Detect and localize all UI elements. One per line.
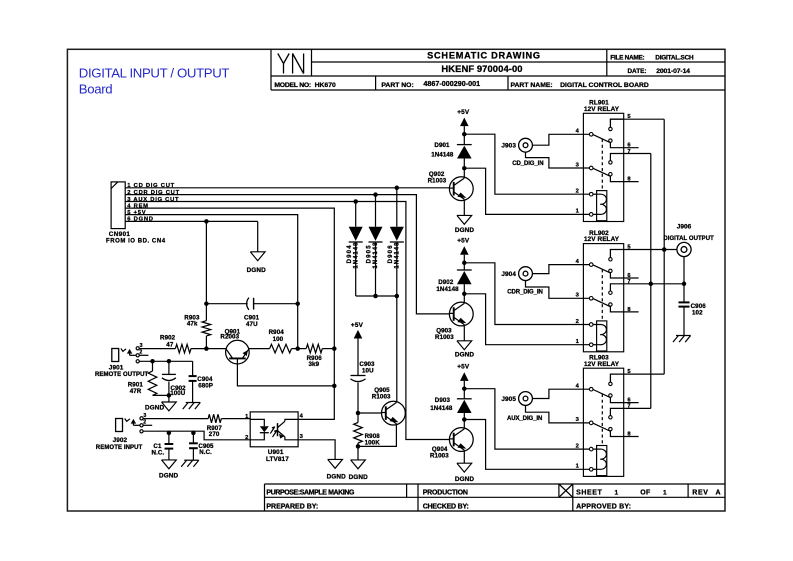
ground DGND of branch 2 — [457, 341, 472, 350]
junction C902 bottom — [167, 393, 172, 398]
ground DGND of J901 network — [162, 402, 177, 411]
svg-text:1N4148: 1N4148 — [353, 242, 359, 269]
svg-text:1N4148: 1N4148 — [373, 242, 379, 269]
junction D905 join — [373, 294, 378, 299]
svg-text:1: 1 — [663, 490, 667, 497]
junction C906 node — [682, 282, 687, 287]
svg-text:1N4148: 1N4148 — [430, 405, 453, 412]
wire collector node to relay coil pin1 — [464, 294, 589, 345]
capacitor C904 680P — [192, 361, 194, 376]
svg-text:DGND: DGND — [247, 267, 267, 274]
svg-text:D903: D903 — [435, 397, 451, 404]
wire Q901 collector down and right to REM node — [237, 364, 334, 386]
resistor R904 100 — [270, 344, 292, 353]
svg-text:DGND: DGND — [455, 227, 475, 234]
transistor Q905 R1003 — [382, 401, 406, 425]
junction bus/J906 line — [662, 247, 667, 252]
wire J901 tip to R902 — [139, 348, 175, 350]
junction base/R903 — [204, 346, 209, 351]
connector J901 REMOTE OUTPUT — [112, 343, 149, 363]
svg-text:SCHEMATIC DRAWING: SCHEMATIC DRAWING — [427, 50, 541, 60]
U901 phototransistor — [277, 423, 279, 436]
svg-text:J903: J903 — [501, 142, 516, 149]
svg-text:12V RELAY: 12V RELAY — [584, 361, 620, 368]
junction sleeve/R901 — [150, 359, 155, 364]
svg-text:REV: REV — [692, 489, 708, 496]
wire C906 node down — [683, 284, 685, 303]
svg-text:OF: OF — [640, 489, 651, 496]
chassis ground of C904 — [186, 402, 201, 404]
wire J902 sleeve to U901 pin2 — [143, 431, 250, 440]
svg-text:PURPOSE:SAMPLE MAKING: PURPOSE:SAMPLE MAKING — [266, 489, 355, 496]
diode D902 1N4148 — [463, 263, 465, 270]
wire C901 right segment to +5V drop — [254, 303, 298, 305]
wire R903 branch vertical — [205, 221, 207, 320]
transistor Q901 R2003 — [226, 340, 250, 364]
svg-text:DIGITAL.SCH: DIGITAL.SCH — [655, 55, 694, 62]
junction sleeve/C1 — [167, 431, 172, 436]
diode D904 1N4148 — [355, 202, 357, 227]
svg-text:FROM IO BD. CN4: FROM IO BD. CN4 — [106, 239, 166, 245]
title block grid — [270, 49, 272, 90]
wire R903 to base node — [205, 336, 207, 349]
svg-text:2001-07-14: 2001-07-14 — [656, 68, 690, 75]
junction R908 bottom — [356, 444, 361, 449]
svg-text:47: 47 — [166, 341, 174, 348]
wire relay RL901 pin5 to output bus — [624, 118, 665, 120]
svg-text:D905: D905 — [367, 244, 373, 263]
svg-text:Board: Board — [79, 82, 112, 97]
svg-text:HKENF 970004-00: HKENF 970004-00 — [441, 63, 522, 74]
wire R901-C902 bottom join — [153, 394, 169, 396]
capacitor C1 N.C. — [168, 433, 170, 444]
diode D906 1N4148 — [396, 188, 398, 227]
svg-text:DIGITAL CONTROL BOARD: DIGITAL CONTROL BOARD — [560, 82, 649, 89]
U901 internal LED — [250, 419, 264, 426]
svg-text:100K: 100K — [365, 439, 381, 446]
capacitor C902 100U — [168, 361, 170, 374]
wire Q905 emitter to R908 bottom — [358, 425, 396, 446]
svg-text:DIGITAL OUTPUT: DIGITAL OUTPUT — [663, 236, 714, 242]
junction wire2 / D905 — [373, 192, 378, 197]
svg-text:DGND: DGND — [159, 472, 179, 479]
wire J901 sleeve to R901/C902/C904 — [139, 360, 192, 362]
wire join to Q905 collector — [396, 296, 398, 401]
logo YN — [278, 54, 284, 74]
capacitor C901 47U — [247, 298, 249, 310]
diode D903 1N4148 — [463, 389, 465, 399]
wire emitter to ground branch 3 — [463, 452, 465, 464]
svg-text:A: A — [716, 489, 721, 496]
connector CN901 — [111, 182, 125, 229]
connector J903 CD_DIG_IN — [519, 138, 533, 152]
relay RL902 12V RELAY — [576, 230, 639, 352]
capacitor C903 10U — [351, 375, 366, 377]
wire emitter to ground branch 2 — [463, 326, 465, 341]
junction C903/R908/base — [356, 411, 361, 416]
svg-text:REMOTE INPUT: REMOTE INPUT — [96, 445, 143, 451]
transistor Q904 R1003 — [463, 420, 465, 428]
svg-text:PART NAME:: PART NAME: — [511, 82, 553, 89]
svg-text:R1003: R1003 — [430, 453, 449, 460]
svg-text:1N4148: 1N4148 — [436, 286, 459, 293]
connector J905 AUX_DIG_IN — [519, 392, 533, 406]
svg-text:PRODUCTION: PRODUCTION — [423, 489, 468, 496]
diode D901 1N4148 — [463, 134, 465, 144]
svg-text:J906: J906 — [677, 224, 692, 231]
wire +5V from CN901 pin5 down to C901/R903 node — [125, 215, 298, 349]
ground DGND of R908 — [351, 460, 366, 469]
svg-text:102: 102 — [692, 310, 703, 317]
svg-text:R1003: R1003 — [372, 393, 391, 400]
wire J903 sleeve to relay pin3 — [526, 152, 590, 168]
resistor R907 270 — [208, 414, 221, 423]
svg-text:+5V: +5V — [351, 322, 364, 329]
wire relay RL901 pin7 to return bus — [624, 153, 651, 155]
wire relay RL903 pin5 to output bus — [624, 373, 665, 375]
svg-text:R2003: R2003 — [220, 333, 239, 340]
svg-text:DGND: DGND — [455, 352, 475, 359]
svg-text:100: 100 — [273, 336, 284, 343]
svg-text:3k9: 3k9 — [309, 361, 320, 368]
svg-text:DGND: DGND — [327, 474, 347, 481]
resistor R902 47 — [175, 344, 191, 353]
svg-text:CDR_DIG_IN: CDR_DIG_IN — [507, 290, 543, 296]
junction D906 join — [395, 294, 400, 299]
svg-text:J904: J904 — [501, 271, 516, 278]
wire CDR_DIG_CUT from CN901 pin2 to Q903 base — [125, 195, 449, 314]
resistor R906 3k9 — [306, 344, 322, 353]
svg-text:APPROVED BY:: APPROVED BY: — [576, 503, 631, 510]
wire J905 sleeve to relay pin3 — [526, 405, 590, 423]
wire Q901 emitter to R904 — [249, 348, 270, 350]
op-amp U901 LTV817 optocoupler — [250, 412, 298, 447]
wire +5V to relay coil pin2 — [464, 263, 589, 325]
wire U901 pin3 to ground — [298, 440, 335, 460]
svg-text:+5V: +5V — [457, 238, 470, 245]
connector J902 REMOTE INPUT — [116, 413, 153, 433]
wire base of Q905 — [358, 412, 382, 414]
capacitor C905 N.C. — [192, 433, 194, 443]
svg-text:PART NO:: PART NO: — [381, 82, 413, 89]
wire +5V to relay coil pin2 — [464, 134, 589, 194]
junction REM/collector — [332, 384, 337, 389]
svg-text:D901: D901 — [434, 142, 450, 149]
chassis ground of C906 — [676, 335, 691, 337]
svg-text:J901: J901 — [109, 365, 124, 372]
svg-text:12V RELAY: 12V RELAY — [584, 106, 620, 113]
wire emitter to ground branch 1 — [463, 201, 465, 216]
svg-text:4867-000290-001: 4867-000290-001 — [423, 79, 480, 88]
connector J906 DIGITAL OUTPUT — [677, 242, 691, 256]
junction sleeve/C905 — [191, 431, 196, 436]
svg-text:SHEET: SHEET — [576, 489, 602, 496]
svg-text:MODEL NO:: MODEL NO: — [274, 82, 311, 89]
svg-text:DGND: DGND — [349, 474, 369, 481]
svg-text:J905: J905 — [501, 396, 516, 403]
svg-text:47R: 47R — [130, 388, 142, 395]
svg-text:N.C.: N.C. — [199, 449, 212, 456]
svg-text:AUX_DIG_IN: AUX_DIG_IN — [507, 416, 542, 422]
svg-text:1: 1 — [615, 490, 619, 497]
svg-text:R1003: R1003 — [435, 334, 454, 341]
svg-text:D902: D902 — [438, 279, 454, 286]
wire collector node to relay coil pin1 — [464, 168, 589, 214]
junction +5V drop / C901 — [295, 301, 300, 306]
svg-text:2: 2 — [245, 435, 248, 441]
junction wire1 / D906 — [395, 186, 400, 191]
U901 light arrows — [270, 427, 274, 434]
svg-text:J902: J902 — [113, 437, 128, 444]
svg-text:REMOTE OUTPUT: REMOTE OUTPUT — [95, 372, 149, 378]
junction diode/collector node branch 2 — [462, 292, 467, 297]
svg-text:+5V: +5V — [457, 363, 470, 370]
relay RL903 12V RELAY — [576, 355, 639, 477]
wire R906 to REM vertical — [322, 348, 334, 350]
wire R907 to U901 pin1 — [221, 418, 250, 420]
wire +5V to relay coil pin2 — [464, 389, 589, 449]
svg-text:47U: 47U — [246, 321, 258, 328]
diode D905 1N4148 — [375, 195, 377, 227]
junction +5V/R904/R906 — [295, 346, 300, 351]
wire diode cathode join — [356, 295, 397, 297]
wire AUX_DIG_CUT from CN901 pin3 to Q904 base — [125, 202, 449, 440]
wire relay RL902 pin7 line to C906 — [624, 283, 684, 285]
wire R902 to base — [191, 348, 226, 350]
wire CD_DIG_CUT from CN901 pin1 to Q902 base — [125, 187, 449, 189]
junction wire6 / R903 branch — [204, 219, 209, 224]
ground DGND of wire6 — [250, 252, 265, 261]
svg-text:DIGITAL INPUT / OUTPUT: DIGITAL INPUT / OUTPUT — [79, 65, 230, 80]
svg-text:+5V: +5V — [457, 109, 470, 116]
svg-text:CD_DIG_IN: CD_DIG_IN — [512, 161, 543, 167]
svg-text:D906: D906 — [388, 244, 394, 263]
wire J905 tip to relay pin4 — [532, 389, 589, 398]
svg-text:DATE:: DATE: — [627, 68, 646, 75]
svg-text:2: 2 — [576, 189, 579, 195]
wire DGND drop to ground symbol — [257, 221, 259, 251]
wire collector node to relay coil pin1 — [464, 420, 589, 470]
svg-text:CHECKED BY:: CHECKED BY: — [423, 503, 469, 510]
svg-text:R1003: R1003 — [428, 178, 447, 185]
connector J904 CDR_DIG_IN — [519, 267, 533, 281]
wire R904 to R906 — [292, 348, 307, 350]
ground DGND of C1 — [162, 460, 177, 469]
svg-text:10U: 10U — [362, 367, 374, 374]
checkbox with X mark — [559, 484, 573, 497]
svg-text:100U: 100U — [170, 390, 186, 397]
ground DGND of branch 1 — [457, 215, 472, 224]
junction diode/collector node branch 1 — [462, 166, 467, 171]
wire relay RL903 pin7 to return bus — [624, 407, 651, 409]
svg-text:47k: 47k — [187, 321, 198, 328]
resistor R903 47k — [202, 321, 211, 336]
chassis ground of C905 — [184, 459, 199, 461]
svg-text:HK670: HK670 — [315, 82, 336, 89]
junction REM/R906 — [332, 346, 337, 351]
wire to DGND — [357, 446, 359, 460]
svg-text:DGND: DGND — [145, 405, 165, 412]
svg-text:DGND: DGND — [455, 476, 475, 483]
wire REM from CN901 pin4 down to U901 pin4 — [125, 208, 334, 419]
svg-text:2: 2 — [576, 319, 579, 325]
resistor R901 47R — [152, 361, 154, 371]
svg-text:12V RELAY: 12V RELAY — [584, 236, 620, 243]
svg-text:LTV817: LTV817 — [266, 456, 289, 463]
junction R903 top / C901 line — [204, 301, 209, 306]
resistor R908 100K — [357, 413, 359, 423]
wire relay RL902 pin5 to J906 — [624, 249, 677, 251]
svg-text:270: 270 — [209, 431, 220, 438]
wire J902 tip to R907 — [143, 418, 208, 420]
relay RL901 12V RELAY — [576, 100, 639, 222]
svg-text:PREPARED BY:: PREPARED BY: — [266, 503, 318, 510]
junction wire3 / D904 — [353, 199, 358, 204]
junction return bus/RL902 pin7 — [649, 282, 654, 287]
svg-text:CN901: CN901 — [109, 231, 131, 238]
wire J906 sleeve down — [683, 256, 685, 283]
svg-text:1N4148: 1N4148 — [395, 242, 401, 269]
ground DGND of U901 pin3 — [328, 459, 343, 468]
capacitor C906 102 — [679, 301, 690, 303]
wire return bus vertical pin7 — [650, 154, 652, 409]
wire to DGND — [168, 395, 170, 402]
wire output bus vertical pin5 — [663, 119, 665, 374]
ground DGND of branch 3 — [457, 463, 472, 472]
svg-text:N.C.: N.C. — [152, 449, 165, 456]
svg-text:680P: 680P — [198, 383, 213, 390]
junction sleeve/C902 — [167, 359, 172, 364]
svg-text:FILE NAME:: FILE NAME: — [610, 55, 644, 62]
wire J903 tip to relay pin4 — [532, 134, 589, 145]
wire J904 tip to relay pin4 — [532, 265, 589, 274]
junction diode/collector node branch 3 — [462, 417, 467, 422]
svg-text:U901: U901 — [268, 449, 284, 456]
svg-text:D904: D904 — [347, 244, 353, 263]
wire C901 left segment — [206, 303, 247, 305]
drawing frame border — [67, 49, 725, 511]
wire J904 sleeve to relay pin3 — [526, 281, 590, 299]
transistor Q903 R1003 — [463, 294, 465, 302]
svg-text:2: 2 — [576, 443, 579, 449]
wire DGND from CN901 pin6 — [125, 220, 258, 222]
transistor Q902 R1003 — [463, 168, 465, 176]
bottom title block grid — [264, 484, 266, 511]
svg-text:1N4148: 1N4148 — [431, 152, 454, 159]
